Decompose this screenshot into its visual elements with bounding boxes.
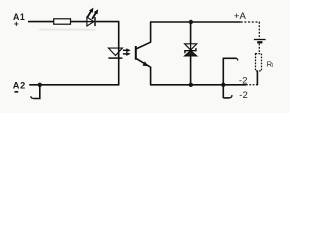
junction dot TVS bottom xyxy=(189,83,193,87)
phototransistor Q1 base bar xyxy=(135,46,137,60)
LED D1 emission arrow 2 xyxy=(92,9,98,19)
TVS wire bottom xyxy=(190,56,192,85)
junction dot TVS top xyxy=(189,20,193,24)
wire resistor to LED xyxy=(71,21,88,23)
bottom rail emitter to load (solid part) xyxy=(150,84,246,86)
-2 label lower xyxy=(239,90,248,101)
wire load bottom to rail xyxy=(256,71,258,85)
wire through LED xyxy=(87,21,95,23)
-2 terminal bottom hook xyxy=(229,95,232,98)
terminal hook A2 xyxy=(31,96,34,98)
LED D1 emission arrow 1 xyxy=(87,8,93,18)
wire A2 bottom-left rail xyxy=(29,84,119,86)
load resistor label RL xyxy=(267,59,273,69)
LED D1 triangle xyxy=(87,17,94,26)
load resistor RL dashed rectangle xyxy=(256,54,262,71)
wire corner down to opto LED and bottom rail xyxy=(118,22,120,86)
top rail collector to +A xyxy=(150,21,241,23)
bottom rail dashed part to load xyxy=(246,84,257,86)
resistor R1 (input series resistor) xyxy=(54,19,71,24)
TVS bottom triangle xyxy=(185,51,197,56)
-2 label upper xyxy=(239,76,248,87)
phototransistor emitter diagonal xyxy=(136,59,150,67)
TVS suppressor diode wire top xyxy=(190,22,192,44)
svg-text:-2: -2 xyxy=(239,76,248,87)
node A2 label xyxy=(13,81,26,93)
TVS top triangle xyxy=(185,44,197,50)
phototransistor collector diagonal xyxy=(136,42,150,49)
wire through TVS top triangle xyxy=(190,44,192,50)
TVS zener bar with wings xyxy=(185,48,196,53)
dashed wire battery to load xyxy=(258,44,260,54)
svg-text:l: l xyxy=(272,63,273,69)
optocoupler light arrow 1 xyxy=(123,48,131,52)
svg-text:+: + xyxy=(14,19,19,29)
wire A1 to resistor xyxy=(28,21,54,23)
-2 terminal bottom stub xyxy=(223,97,229,99)
optocoupler light arrow 2 xyxy=(123,52,131,56)
-2 terminal bracket vertical xyxy=(222,58,224,98)
junction dot on A2 rail xyxy=(38,83,42,87)
optocoupler LED cathode bar xyxy=(108,57,122,59)
dashed wire down to battery xyxy=(258,22,260,39)
wire through opto LED xyxy=(118,48,120,58)
node A1 label xyxy=(13,12,25,29)
svg-text:A2: A2 xyxy=(13,81,26,91)
collector wire up xyxy=(150,22,152,43)
emitter wire down xyxy=(150,67,152,85)
emitter arrowhead xyxy=(142,61,148,66)
junction dot -2 terminal xyxy=(221,83,225,87)
battery negative plate xyxy=(257,41,262,43)
battery positive plate xyxy=(254,39,266,41)
LED D1 cathode bar xyxy=(94,17,96,26)
terminal stub below A2 junction xyxy=(34,85,40,99)
wire LED to corner xyxy=(96,21,120,23)
-2 terminal top stub xyxy=(223,57,237,59)
optocoupler LED triangle xyxy=(109,48,123,55)
+A label xyxy=(234,11,247,22)
svg-text:-2: -2 xyxy=(239,90,248,101)
-2 terminal top hook xyxy=(236,58,238,60)
dashed rail +A to supply corner xyxy=(241,21,260,23)
scan smudge artifact xyxy=(39,29,95,31)
svg-text:+A: +A xyxy=(234,11,247,22)
